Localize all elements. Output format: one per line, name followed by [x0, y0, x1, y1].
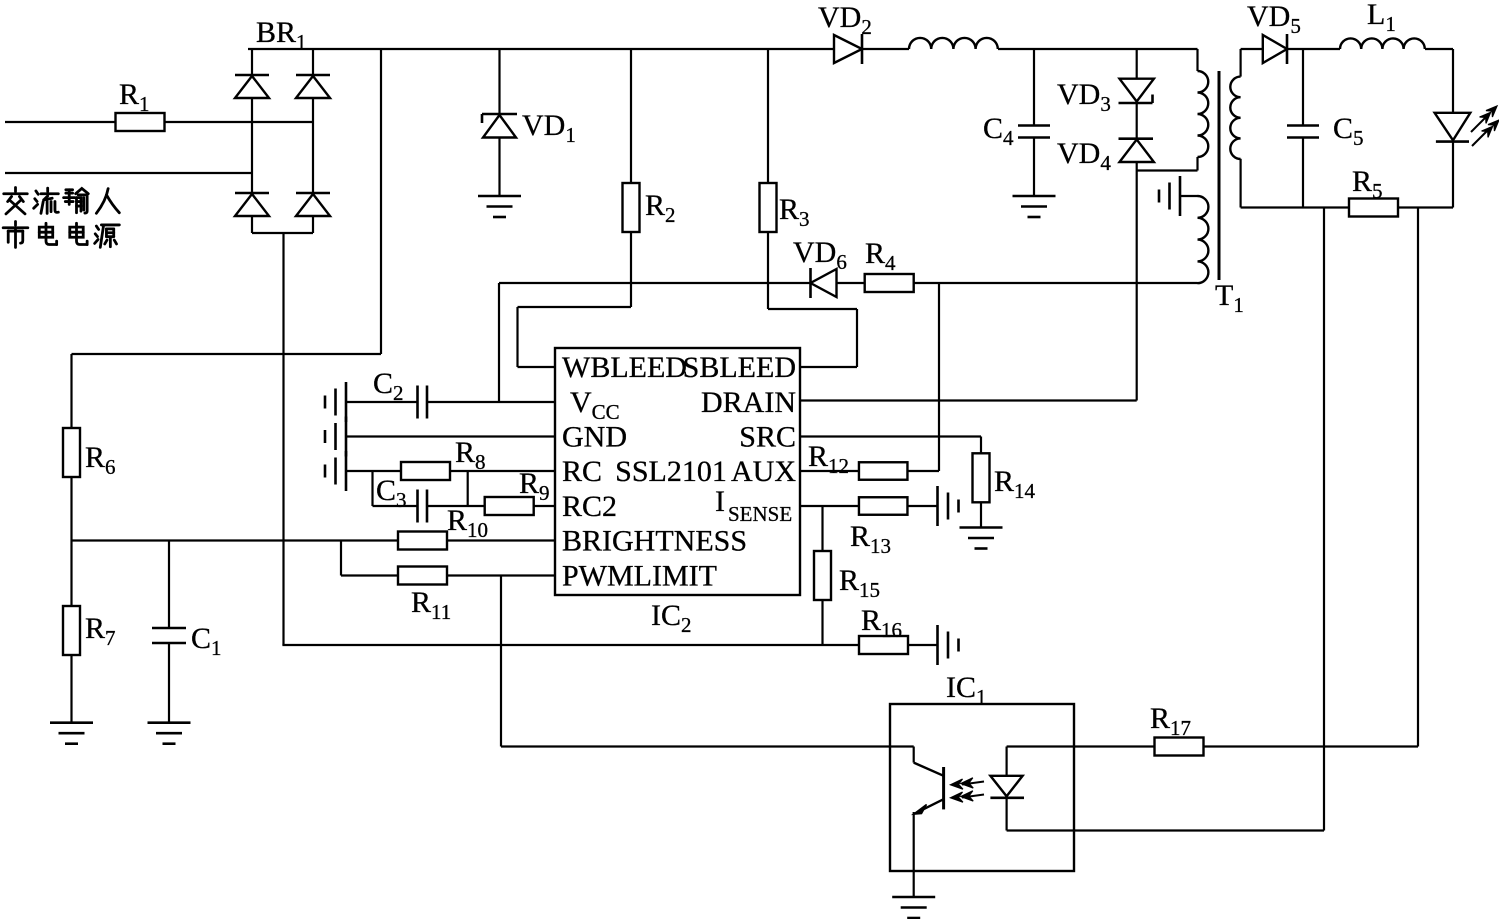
label T1 [1215, 279, 1244, 317]
wire sense ground line [282, 644, 859, 646]
wire R15 to sense line [821, 600, 823, 645]
optocoupler IC1 body [890, 704, 1074, 871]
label R16 [861, 604, 902, 642]
pin PWMLIMIT [562, 560, 717, 593]
wire R17 to feedback [1204, 745, 1418, 747]
transformer T1 primary winding [1198, 49, 1209, 171]
wire aux winding bottom line [914, 282, 1198, 284]
bridge BR1 diode D2 (upper right) [296, 75, 330, 98]
resistor R5 [1349, 199, 1398, 217]
svg-text:BRIGHTNESS: BRIGHTNESS [562, 525, 747, 558]
wire aux winding top to ground [1180, 195, 1198, 197]
wire R7 to ground [70, 655, 72, 723]
pin RC [562, 455, 602, 488]
wire AC input line 2 to bridge left leg [5, 172, 252, 174]
resistor R3 [760, 183, 777, 232]
svg-text:SBLEED: SBLEED [683, 351, 796, 384]
label VD5 [1247, 0, 1301, 38]
diode VD2 [834, 34, 862, 64]
wire C5 to output bottom rail [1302, 138, 1304, 208]
wire brightness line from divider [72, 539, 399, 541]
wire opto LED anode to R17 [1007, 745, 1154, 747]
ground at aux winding top [1159, 176, 1180, 216]
label VD6 [793, 236, 847, 274]
label R5 [1352, 165, 1383, 203]
label R12 [808, 440, 849, 478]
pin VCC [570, 386, 620, 424]
bridge BR1 diode D3 (lower left) [235, 193, 269, 216]
ground below R14 [960, 528, 1003, 549]
wire ISENSE pin to R13 [800, 505, 859, 507]
wire down to VCC line [498, 283, 500, 402]
wire R14 to ground [980, 502, 982, 528]
wire top rail to R3 [767, 49, 769, 183]
wire R12 to aux line [908, 283, 940, 471]
ground at R16 line end [938, 625, 959, 665]
ground at RC line end [325, 451, 346, 491]
wire AC input line 1 (to R1) [5, 121, 116, 123]
svg-text:SSL2101: SSL2101 [615, 455, 727, 488]
wire VD3 to VD4 [1136, 103, 1138, 139]
wire VD5 to L1 [1287, 48, 1340, 50]
wire RC node down to C3 left [371, 471, 373, 506]
bridge BR1 bottom rail [252, 232, 313, 234]
capacitor C4 [1018, 126, 1050, 138]
label VD4 [1057, 137, 1111, 175]
bridge BR1 diode D1 (upper left) [235, 75, 269, 98]
wire R3 to SBLEED pin [768, 232, 857, 367]
wire feedback from R5 left node [1323, 208, 1325, 831]
label C1 [191, 622, 222, 660]
wire secondary top to VD5 [1241, 48, 1263, 50]
wire feedback from R5 right node [1417, 208, 1419, 747]
resistor R16 [859, 636, 908, 654]
wire inductor to transformer primary [998, 48, 1198, 50]
wire node to R7 [70, 541, 72, 607]
resistor R8 [401, 462, 450, 480]
label C2 [373, 367, 404, 405]
wire C2 to ground [346, 401, 418, 403]
wire DC- return from bridge [282, 233, 284, 645]
wire R8 to ground [346, 470, 401, 472]
resistor R10 [398, 532, 447, 550]
resistor R14 [973, 453, 990, 502]
svg-text:GND: GND [562, 421, 627, 454]
svg-text:AUX: AUX [731, 455, 796, 488]
label C5 [1333, 112, 1364, 150]
wire C3 left [373, 505, 418, 507]
pin SBLEED [683, 351, 796, 384]
resistor R17 [1155, 738, 1204, 756]
wire divider top [70, 354, 72, 428]
wire top rail to VD3 [1136, 49, 1138, 79]
label R17 [1150, 702, 1191, 740]
label AC input text 交流输入 市电电源 [3, 188, 119, 248]
resistor R15 [814, 551, 831, 600]
wire R13 to ground [908, 505, 938, 507]
ground below optocoupler [892, 897, 935, 918]
opto LED [990, 747, 1024, 831]
wire DRAIN pin to transformer [800, 399, 1137, 401]
label VD2 [818, 1, 872, 39]
wire VCC pin to C2 [427, 401, 555, 403]
svg-text:PWMLIMIT: PWMLIMIT [562, 560, 717, 593]
label VD1 [522, 109, 576, 147]
LED emission arrows [1471, 106, 1499, 146]
opto light arrows [951, 778, 985, 802]
label C3 [376, 474, 407, 512]
LED (output load) [1435, 113, 1471, 142]
label R3 [779, 193, 810, 231]
svg-text:DRAIN: DRAIN [701, 386, 796, 419]
wire R1 to bridge right leg [164, 121, 313, 123]
wire DC+ top rail [313, 48, 834, 50]
label R2 [645, 189, 676, 227]
wire opto LED cathode return [1007, 829, 1324, 831]
label R1 [119, 78, 150, 116]
resistor R4 [865, 274, 914, 292]
wire R4 to VD6 [837, 282, 865, 284]
label VD3 [1057, 78, 1111, 116]
bridge BR1 right leg wire [312, 49, 314, 233]
svg-text:WBLEED: WBLEED [562, 351, 687, 384]
resistor R7 [63, 606, 80, 655]
opto phototransistor Q1 [914, 747, 944, 898]
wire R10 to BRIGHTNESS pin [447, 539, 555, 541]
label R13 [850, 520, 891, 558]
wire to C5 [1302, 49, 1304, 126]
wire R6 to node [70, 477, 72, 541]
wire VD1 to ground [498, 138, 500, 197]
pin AUX [731, 455, 796, 488]
wire R2 to WBLEED pin [518, 232, 632, 367]
pin WBLEED [562, 351, 687, 384]
zener diode VD1 [482, 114, 517, 138]
label R11 [411, 586, 451, 624]
wire AUX pin to R12 [800, 470, 859, 472]
inductor L1 [1340, 38, 1425, 49]
diode VD4 [1119, 139, 1154, 162]
pin RC2 [562, 490, 617, 523]
resistor R2 [623, 183, 640, 232]
wire output bottom rail right [1399, 206, 1453, 208]
svg-text:RC: RC [562, 455, 602, 488]
resistor R11 [398, 567, 447, 585]
wire VD4 to primary bottom and drain [1137, 162, 1198, 401]
label SSL2101 [615, 455, 727, 488]
wire top rail to VD1 [498, 49, 500, 114]
transformer T1 secondary winding [1230, 49, 1240, 208]
wire C3 to R9 [427, 505, 485, 507]
wire output bottom rail left [1241, 206, 1348, 208]
wire SRC pin to R14 [800, 437, 981, 454]
wire ISENSE node down to R15 [821, 506, 823, 551]
ground at GND line end [325, 417, 346, 457]
label C4 [983, 112, 1014, 150]
ground below VD1 [478, 196, 521, 217]
wire R11 left [341, 574, 398, 576]
ground at VCC line end [325, 382, 346, 422]
wire top rail to R6 branch [72, 49, 382, 354]
label IC1 [946, 671, 987, 709]
label IC2 [651, 599, 692, 637]
bridge BR1 left leg wire [251, 49, 253, 233]
pin ISENSE [715, 485, 792, 526]
capacitor C3 [418, 490, 428, 523]
svg-text:SRC: SRC [739, 421, 796, 454]
wire top rail to C4 [1033, 49, 1035, 126]
wire VD2 to filter inductor [862, 48, 909, 50]
wire PWMLIMIT to optocoupler [501, 576, 914, 747]
label R4 [865, 237, 896, 275]
resistor R9 [485, 497, 534, 515]
op-amp IC2 (SSL2101 controller) body [555, 348, 800, 595]
transformer T1 core [1218, 71, 1221, 280]
pin GND [562, 421, 627, 454]
capacitor C2 [418, 386, 428, 419]
label BR1 [256, 16, 307, 54]
pin BRIGHTNESS [562, 525, 747, 558]
wire R11 to PWMLIMIT pin [447, 574, 555, 576]
label R9 [519, 467, 550, 505]
wire LED to bottom rail [1452, 142, 1454, 208]
bridge BR1 diode D4 (lower right) [296, 193, 330, 216]
wire GND pin to ground [346, 435, 555, 437]
resistor R6 [63, 428, 80, 477]
resistor R12 [859, 462, 908, 480]
pin SRC [739, 421, 796, 454]
ground below C1 [148, 723, 191, 744]
pin DRAIN [701, 386, 796, 419]
resistor R1 [116, 113, 165, 131]
label R10 [447, 504, 488, 542]
capacitor C5 [1287, 126, 1319, 138]
wire R9 to RC2 pin [533, 505, 555, 507]
zener diode VD3 [1119, 79, 1154, 103]
svg-text:RC2: RC2 [562, 490, 617, 523]
wire RC node down to C3 right [467, 471, 469, 506]
ground below C4 [1013, 196, 1056, 217]
ground below R7 [50, 723, 93, 744]
label R7 [85, 612, 116, 650]
label R14 [994, 465, 1036, 503]
inductor (filter choke) [909, 38, 998, 49]
ground at R13 line end [938, 486, 959, 526]
wire top rail to R2 [630, 49, 632, 183]
wire R16 to ground [908, 644, 938, 646]
wire to output LED [1452, 49, 1454, 113]
label R6 [85, 441, 116, 479]
wire RC pin to R8 [450, 470, 555, 472]
svg-text:I: I [715, 485, 725, 518]
transformer T1 auxiliary winding [1198, 196, 1209, 283]
diode VD5 [1263, 34, 1287, 64]
label R8 [455, 436, 486, 474]
resistor R13 [859, 497, 908, 515]
wire L1 to LED branch [1425, 48, 1453, 50]
label R15 [839, 564, 880, 602]
wire VD6 to VCC corner [499, 282, 811, 284]
label L1 [1367, 0, 1396, 36]
wire C1 to ground [168, 643, 170, 723]
wire node to C1 [168, 541, 170, 629]
capacitor C1 [152, 628, 186, 643]
wire R11 junction up to brightness line [340, 541, 342, 576]
bridge BR1 top rail [248, 48, 313, 50]
diode VD6 [811, 268, 837, 298]
svg-text:SENSE: SENSE [728, 502, 792, 526]
wire C4 to ground [1033, 138, 1035, 197]
